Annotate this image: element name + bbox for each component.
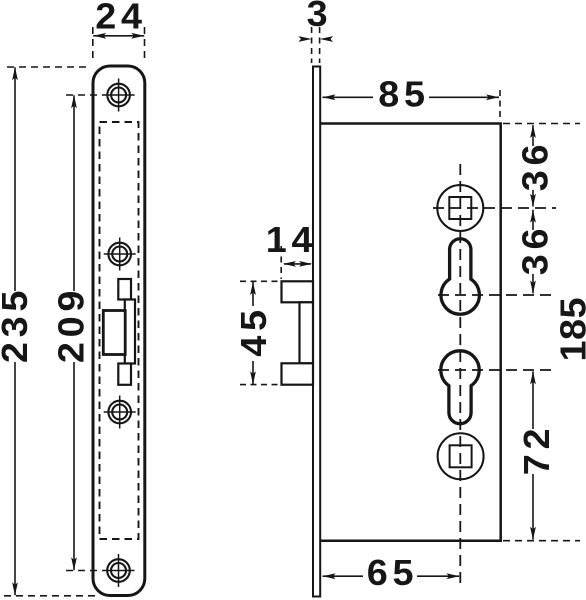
dim 36b line with arrows	[532, 210, 534, 230]
vertical centerline through holes	[459, 164, 461, 585]
svg-text:36: 36	[515, 140, 555, 191]
body bottom extension line	[503, 540, 580, 542]
dim 14 line with arrows	[284, 263, 311, 265]
screw hole top	[107, 84, 130, 107]
svg-text:65: 65	[367, 553, 418, 593]
svg-text:24: 24	[95, 0, 146, 36]
svg-text:85: 85	[378, 74, 429, 114]
dim 235 extension lines	[7, 66, 91, 68]
dim 45 line with arrows	[252, 282, 254, 306]
latch bottom tab (front)	[118, 364, 131, 385]
faceplate front view outline	[93, 66, 145, 596]
horizontal centerline lower keyhole	[438, 369, 552, 371]
dim 45 extension lines	[240, 280, 279, 282]
latch bottom tab (side)	[282, 363, 314, 384]
svg-text:235: 235	[0, 286, 35, 363]
latch bolt (front)	[103, 311, 125, 355]
dim 3 arrows	[298, 36, 312, 42]
spindle hole lower (square follower)	[438, 433, 484, 479]
dim 72 line with arrows	[532, 371, 534, 429]
dim 65 line with arrows	[323, 575, 363, 577]
horizontal centerline upper spindle	[433, 207, 556, 209]
screw hole lower-middle	[108, 401, 131, 424]
latch guide plate (side)	[300, 302, 314, 363]
svg-text:209: 209	[51, 286, 91, 363]
lock body outline	[320, 124, 501, 541]
spindle hole upper (square follower)	[437, 185, 483, 231]
horizontal centerline upper keyhole	[438, 294, 556, 296]
keyhole lower (cylinder profile, stem down)	[441, 351, 479, 424]
latch guide plate (front)	[125, 300, 135, 364]
svg-text:36: 36	[515, 224, 555, 275]
dim 24 extension lines	[92, 27, 94, 62]
dim 209 line with arrows	[73, 95, 75, 291]
dim 24 line with arrows	[93, 35, 144, 37]
keyhole upper (cylinder profile, stem up)	[441, 239, 479, 314]
screw hole bottom	[107, 559, 130, 582]
svg-text:45: 45	[234, 305, 274, 356]
svg-text:185: 185	[553, 297, 586, 362]
svg-text:3: 3	[307, 0, 333, 34]
screw hole upper-middle	[108, 243, 131, 266]
svg-text:72: 72	[517, 424, 557, 475]
lock body hidden outline (dashed rect)	[100, 122, 139, 539]
body top extension line	[503, 123, 580, 125]
dim 235 line with arrows	[14, 67, 16, 291]
dim 85 line with arrows	[323, 96, 374, 98]
dim 209 extension lines	[66, 94, 103, 96]
dim 14 extension line	[280, 246, 282, 279]
faceplate edge view	[313, 67, 320, 597]
dim 3 extension lines	[311, 27, 313, 63]
latch top tab (side)	[282, 281, 314, 302]
svg-text:14: 14	[266, 220, 317, 260]
dim 85 extension line	[499, 90, 501, 120]
dim 36a line with arrows	[532, 125, 534, 146]
latch top tab (front)	[118, 279, 131, 300]
